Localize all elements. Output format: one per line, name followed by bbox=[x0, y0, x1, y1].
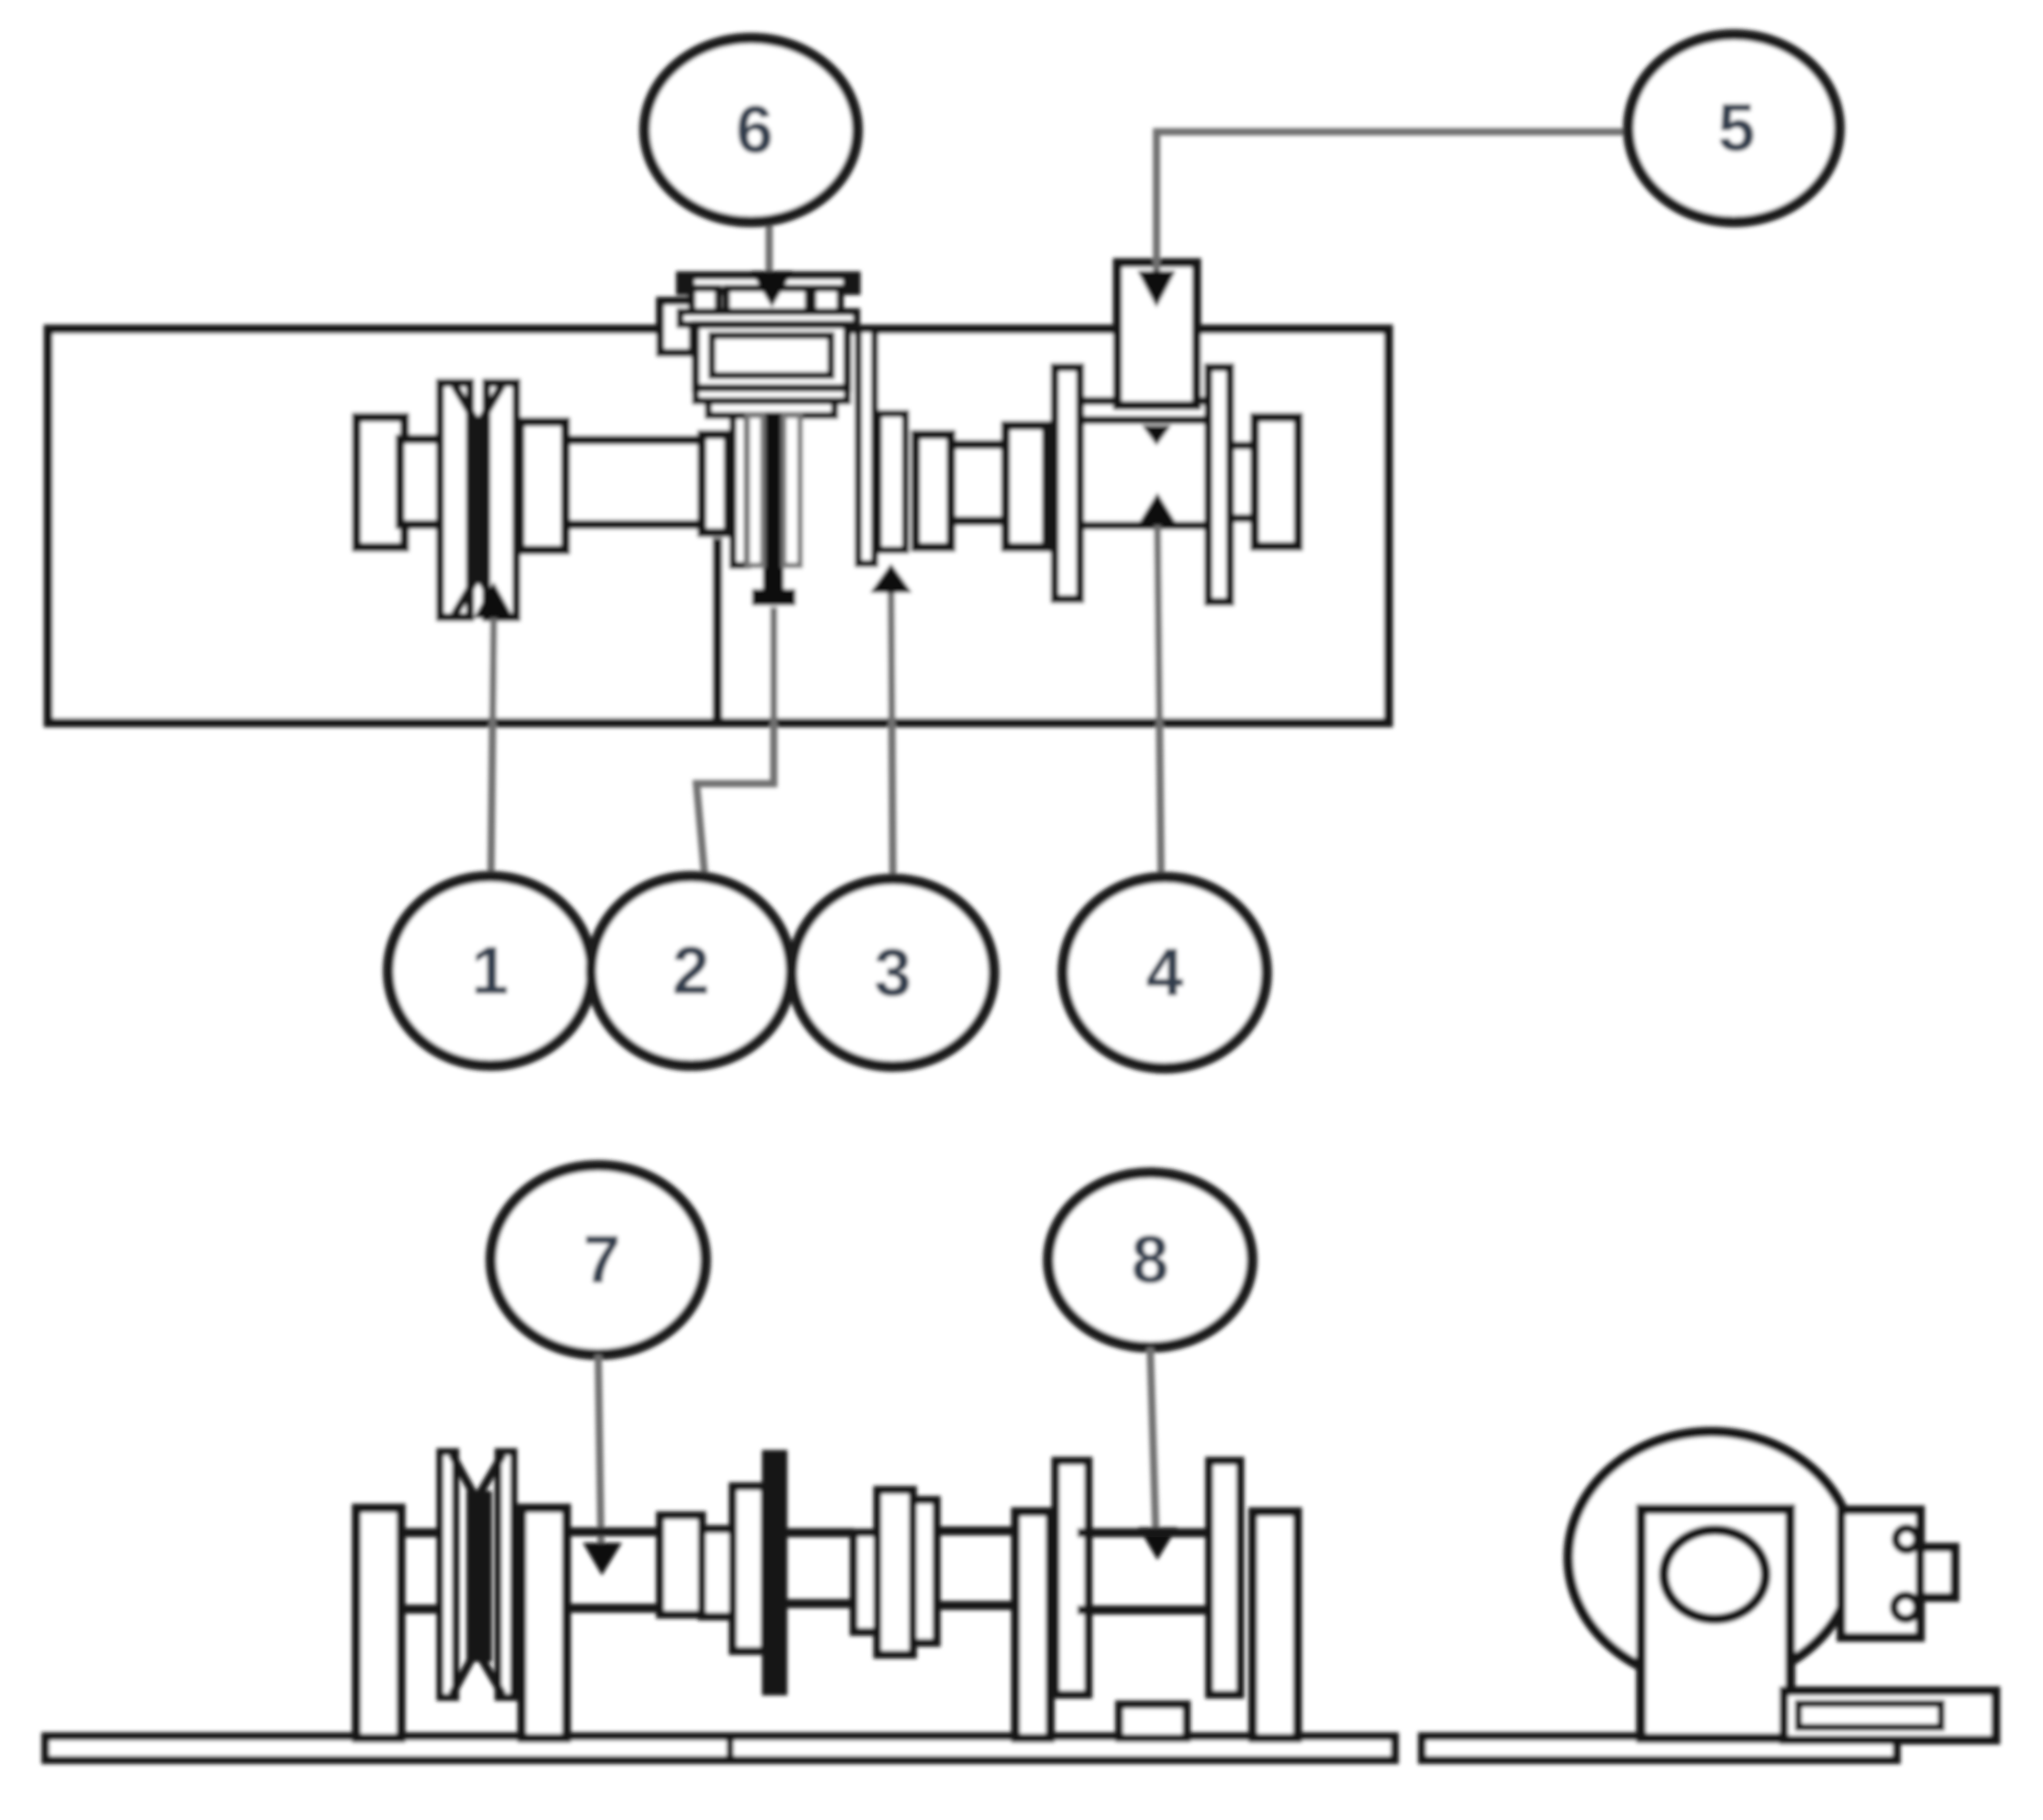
shaft end cap between 3 and 4 bbox=[916, 435, 951, 547]
callout circle 7 bbox=[491, 1165, 706, 1355]
svg-text:3: 3 bbox=[874, 935, 911, 1010]
coupling dark plate bbox=[762, 1450, 787, 1695]
load frame right plate bbox=[858, 329, 875, 564]
callout circle 3 bbox=[792, 879, 994, 1066]
left shaft end cap bbox=[356, 417, 405, 547]
arrow 6 bbox=[751, 271, 793, 307]
bottom view: right baseplate bbox=[1422, 1736, 1897, 1760]
leader line 8 bbox=[1150, 1347, 1156, 1527]
coupling sleeve B2 bbox=[913, 1500, 936, 1643]
motor junction box bbox=[1841, 1510, 1920, 1637]
right spacer of load frame bbox=[878, 414, 906, 550]
svg-text:4: 4 bbox=[1146, 935, 1183, 1010]
callout circle 4 bbox=[1063, 877, 1267, 1068]
arrow 8 (down) bbox=[1138, 1527, 1177, 1560]
foot block bbox=[1119, 1705, 1187, 1738]
arrow 4 (up) bbox=[1137, 493, 1177, 525]
top view frame rectangle bbox=[48, 329, 1388, 723]
callout circle 2 bbox=[591, 876, 791, 1065]
leader line 2 bbox=[696, 607, 774, 875]
callout circle 6 bbox=[645, 38, 857, 222]
bolt top bbox=[1896, 1528, 1918, 1550]
bearing block B1 (top view) bbox=[520, 422, 566, 550]
right stub shaft bbox=[1230, 445, 1255, 518]
pedestal 3 bbox=[1016, 1512, 1050, 1738]
pedestal 1 bbox=[356, 1508, 401, 1738]
bearing 8 housing lines bbox=[1077, 1528, 1217, 1537]
bearing unit 4: left tall plate bbox=[1055, 367, 1080, 599]
spacer flange F2 bbox=[1006, 425, 1047, 547]
bearing 8 right tall plate bbox=[1209, 1461, 1240, 1695]
svg-text:1: 1 bbox=[471, 933, 508, 1008]
callout circle 5 bbox=[1628, 35, 1839, 222]
bearing unit 4: right tall plate bbox=[1208, 367, 1230, 602]
shaft segment S2 bbox=[951, 445, 1007, 521]
callout circle 8 bbox=[1048, 1173, 1252, 1347]
motor body ellipse bbox=[1568, 1432, 1854, 1683]
bearing unit 4: housing bbox=[1080, 420, 1208, 525]
coupling sleeve B0 bbox=[854, 1533, 877, 1632]
shaft (front view) segment A bbox=[565, 1527, 660, 1536]
svg-text:8: 8 bbox=[1131, 1222, 1168, 1297]
svg-text:2: 2 bbox=[672, 933, 709, 1008]
callout circle 1 bbox=[388, 876, 592, 1065]
coupling flange A1 bbox=[733, 1486, 765, 1651]
motor pedestal bbox=[1641, 1509, 1790, 1738]
arrow 5 bbox=[1137, 271, 1176, 307]
pedestal 2 bbox=[522, 1508, 566, 1738]
screw sleeves bbox=[747, 415, 763, 565]
load cylinder 5 bbox=[1117, 263, 1197, 405]
motor shaft hole bbox=[1664, 1530, 1766, 1619]
pedestal 4 bbox=[1253, 1512, 1297, 1738]
shaft segment B bbox=[787, 1528, 854, 1537]
svg-text:6: 6 bbox=[736, 92, 773, 167]
shaft segment C bbox=[936, 1526, 1016, 1535]
loading screw (black) bbox=[752, 415, 796, 605]
arrow 3 (up) bbox=[870, 564, 912, 593]
svg-text:7: 7 bbox=[583, 1222, 620, 1297]
pulley (front view) bbox=[440, 1452, 514, 1697]
shaft lines left of pulley bbox=[401, 1528, 440, 1537]
coupling sleeve R2 bbox=[702, 1529, 733, 1616]
leader line 1 bbox=[491, 618, 494, 875]
pulley P1 (top view) bbox=[440, 383, 516, 617]
load frame left plate bbox=[733, 408, 747, 565]
leader line 5 bbox=[1157, 132, 1628, 273]
coupling flange B1 bbox=[877, 1490, 913, 1655]
leader line 3 bbox=[891, 593, 893, 875]
bolt bottom bbox=[1894, 1595, 1918, 1619]
bearing 8 left tall plate bbox=[1056, 1461, 1088, 1695]
frame leg bbox=[713, 538, 723, 723]
coupling sleeve R1 bbox=[660, 1515, 702, 1615]
leader line 7 bbox=[598, 1355, 601, 1545]
leader line 4 bbox=[1157, 525, 1161, 876]
right end flange bbox=[1255, 417, 1298, 546]
shaft segment S1 bbox=[566, 440, 702, 525]
motor foot bracket bbox=[1784, 1691, 1996, 1740]
leader line 6 bbox=[766, 222, 773, 275]
spacer flange F1 bbox=[702, 435, 728, 533]
junction end plate bbox=[1920, 1547, 1955, 1597]
bottom view: left baseplate bbox=[45, 1736, 1395, 1760]
left short shaft bbox=[400, 439, 445, 525]
load device 6 bracket bbox=[660, 275, 856, 415]
arrow 1 (up, under pulley) bbox=[474, 582, 514, 618]
arrow inside housing 4 (down) bbox=[1142, 425, 1171, 445]
arrow 7 (down) bbox=[583, 1543, 622, 1575]
svg-text:5: 5 bbox=[1718, 90, 1755, 165]
